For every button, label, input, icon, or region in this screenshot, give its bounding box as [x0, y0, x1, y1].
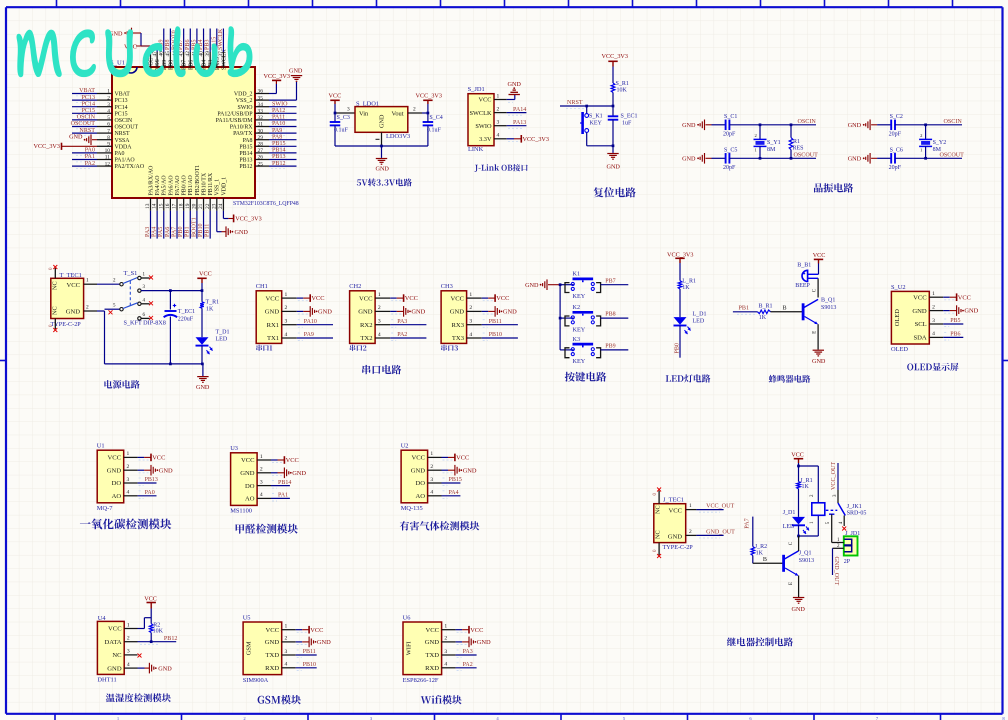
svg-text:PB6: PB6 — [185, 39, 191, 50]
capacitor S_C3 0.1uF — [334, 113, 336, 122]
svg-text:LED: LED — [783, 524, 795, 530]
title Wifi module — [421, 695, 462, 704]
svg-text:SDA: SDA — [913, 335, 926, 342]
module U1 body — [97, 450, 124, 503]
svg-text:PA0: PA0 — [115, 151, 125, 157]
svg-text:T_EC1: T_EC1 — [178, 309, 195, 315]
svg-text:PA8: PA8 — [243, 138, 253, 144]
svg-text:VCC: VCC — [266, 627, 280, 634]
svg-text:3: 3 — [378, 319, 381, 325]
svg-text:PB8: PB8 — [168, 60, 174, 70]
svg-text:2: 2 — [260, 467, 263, 473]
svg-text:PB8: PB8 — [165, 39, 171, 50]
svg-text:VSSA: VSSA — [115, 138, 131, 144]
svg-text:PB1: PB1 — [739, 305, 750, 311]
svg-text:1: 1 — [127, 622, 130, 628]
svg-text:RX1: RX1 — [267, 322, 279, 329]
svg-text:GND: GND — [607, 164, 621, 171]
svg-text:J_TEC1: J_TEC1 — [663, 496, 684, 503]
svg-text:2: 2 — [932, 304, 935, 310]
svg-text:4: 4 — [285, 332, 288, 338]
svg-text:13: 13 — [145, 203, 151, 209]
svg-text:LDO3V3: LDO3V3 — [386, 133, 410, 140]
svg-text:PA11: PA11 — [272, 115, 285, 121]
ground at JD1 pin 1 — [507, 99, 515, 101]
svg-text:PA0: PA0 — [85, 148, 95, 154]
svg-text:GND: GND — [292, 470, 306, 477]
title temperature humidity detect module — [106, 693, 171, 702]
module S_U2 body — [891, 291, 929, 344]
svg-text:PB11: PB11 — [303, 649, 316, 655]
svg-text:PA3: PA3 — [145, 227, 151, 237]
svg-text:2: 2 — [689, 529, 692, 535]
svg-text:3: 3 — [285, 649, 288, 655]
svg-text:GND: GND — [682, 155, 696, 162]
svg-text:R2: R2 — [153, 622, 160, 628]
wire collector to buzzer — [817, 278, 819, 297]
svg-text:VCC: VCC — [456, 455, 469, 462]
svg-text:PB15: PB15 — [239, 144, 252, 150]
svg-text:PA2: PA2 — [463, 662, 473, 668]
svg-text:28: 28 — [258, 142, 264, 148]
resistor J_R1 1K — [797, 482, 801, 489]
svg-text:VCC: VCC — [108, 626, 122, 633]
svg-text:PC13: PC13 — [115, 98, 128, 104]
title buzzer circuit — [769, 375, 811, 383]
ground at DHT11 pin 4 — [138, 667, 145, 669]
svg-text:2: 2 — [86, 305, 89, 311]
svg-text:SWIO: SWIO — [272, 101, 288, 107]
svg-text:PB13: PB13 — [272, 154, 286, 160]
svg-text:VCC: VCC — [359, 295, 373, 302]
svg-text:VCC_3V3: VCC_3V3 — [667, 252, 693, 259]
svg-text:1: 1 — [378, 292, 381, 298]
no-connect at DHT11 pin 3 — [138, 654, 142, 658]
svg-text:4: 4 — [932, 331, 935, 337]
svg-text:MQ-7: MQ-7 — [97, 505, 113, 512]
svg-text:4: 4 — [285, 662, 288, 668]
title reset circuit — [593, 187, 635, 197]
svg-text:PA2/TX/AO: PA2/TX/AO — [115, 164, 145, 170]
MCU top pin net wires and labels — [163, 29, 165, 53]
svg-text:1: 1 — [107, 89, 110, 95]
svg-text:1K: 1K — [206, 306, 214, 312]
svg-text:2P: 2P — [844, 559, 851, 565]
svg-text:10K: 10K — [153, 629, 164, 635]
svg-text:J_R1: J_R1 — [800, 478, 812, 484]
svg-text:1: 1 — [285, 624, 288, 630]
svg-text:VCC_3V3: VCC_3V3 — [264, 73, 290, 80]
transistor J_Q1 S9013 — [782, 555, 785, 572]
title 5V to 3.3V circuit — [357, 178, 412, 186]
svg-text:31: 31 — [258, 122, 264, 128]
svg-text:3: 3 — [430, 477, 433, 483]
LED L_D1 — [679, 289, 681, 317]
svg-text:PB5: PB5 — [950, 318, 960, 324]
svg-text:NC: NC — [655, 505, 662, 514]
svg-text:GND: GND — [668, 533, 683, 540]
power VCC_3V3 at MCU pin 24 VDD_1 — [222, 211, 224, 219]
svg-text:3: 3 — [127, 477, 130, 483]
svg-text:25: 25 — [258, 161, 264, 167]
svg-text:GND: GND — [265, 639, 280, 646]
svg-text:NC: NC — [52, 281, 59, 290]
svg-text:L_R1: L_R1 — [682, 279, 696, 285]
svg-text:SWIO: SWIO — [475, 123, 492, 130]
svg-text:VCC_OUT: VCC_OUT — [706, 504, 734, 510]
svg-text:VCC_3V3: VCC_3V3 — [523, 136, 549, 143]
title carbon monoxide detect module — [80, 519, 171, 530]
svg-text:E: E — [789, 582, 794, 585]
svg-text:GND: GND — [317, 639, 331, 646]
svg-text:VCC: VCC — [286, 457, 299, 464]
svg-text:RXD: RXD — [265, 665, 279, 672]
svg-text:TXD: TXD — [425, 652, 439, 659]
svg-text:3: 3 — [469, 319, 472, 325]
svg-text:SIM900A: SIM900A — [243, 677, 269, 684]
svg-text:VCC: VCC — [791, 451, 804, 458]
svg-text:VCC: VCC — [470, 627, 483, 634]
svg-text:20pF: 20pF — [723, 165, 736, 171]
svg-text:34: 34 — [258, 102, 264, 108]
svg-text:1: 1 — [285, 292, 288, 298]
svg-text:PA3: PA3 — [463, 649, 473, 655]
svg-text:PC15: PC15 — [81, 108, 95, 114]
svg-text:VCC: VCC — [66, 282, 80, 289]
module CH2 body — [350, 291, 376, 344]
svg-text:S_KFT DIP-8X8: S_KFT DIP-8X8 — [124, 320, 166, 327]
svg-text:K2: K2 — [573, 304, 581, 311]
svg-text:PB8: PB8 — [605, 312, 615, 318]
title serial circuit — [362, 365, 401, 374]
svg-text:VCC_3V3: VCC_3V3 — [235, 216, 261, 223]
sheet border frame — [6, 6, 1003, 8]
svg-text:OSCOUT: OSCOUT — [71, 121, 96, 127]
svg-text:VCC_3V3: VCC_3V3 — [602, 53, 628, 60]
svg-text:NRST: NRST — [567, 100, 583, 106]
svg-text:KEY: KEY — [590, 121, 603, 127]
svg-text:20pF: 20pF — [723, 131, 736, 137]
svg-text:PB0: PB0 — [178, 226, 184, 237]
svg-text:SRD-05: SRD-05 — [847, 511, 867, 517]
svg-text:VCC: VCC — [108, 455, 122, 462]
wire B node to transistor base — [771, 311, 804, 313]
svg-text:GND: GND — [69, 134, 83, 141]
svg-text:J_R2: J_R2 — [755, 544, 767, 550]
svg-text:4: 4 — [127, 662, 130, 668]
svg-text:30: 30 — [258, 128, 264, 134]
svg-text:VCC: VCC — [450, 295, 464, 302]
svg-text:PB7: PB7 — [182, 60, 188, 70]
svg-text:4: 4 — [260, 492, 263, 498]
svg-text:PB11: PB11 — [489, 319, 502, 325]
svg-text:3: 3 — [497, 120, 500, 126]
svg-text:AO: AO — [112, 493, 122, 500]
svg-text:20: 20 — [192, 203, 198, 209]
svg-text:11: 11 — [105, 155, 110, 161]
svg-text:VDD_2: VDD_2 — [234, 92, 253, 98]
svg-text:4: 4 — [107, 109, 110, 115]
svg-text:VCC: VCC — [152, 455, 165, 462]
svg-text:PA4: PA4 — [152, 227, 158, 237]
module U6 body — [403, 622, 442, 675]
svg-text:PA5/AO: PA5/AO — [162, 175, 168, 196]
svg-text:MS1100: MS1100 — [230, 508, 252, 515]
svg-text:OSCIN: OSCIN — [798, 119, 817, 125]
ground of power circuit — [197, 376, 208, 378]
MCU U1 body STM32F103C8T6 — [112, 67, 255, 198]
svg-text:GND: GND — [508, 81, 522, 88]
svg-text:GND: GND — [240, 470, 255, 477]
svg-text:1: 1 — [260, 454, 263, 460]
MCU left pins 1-12 — [97, 93, 112, 95]
MCU top pins 48-37 — [150, 52, 152, 67]
svg-text:GND: GND — [463, 467, 477, 474]
wire J_JD1 pin 2 GND_OUT — [833, 547, 844, 549]
svg-text:S_U2: S_U2 — [891, 284, 906, 291]
svg-text:RXD: RXD — [425, 665, 439, 672]
wire LDO bottom rail — [335, 145, 428, 147]
svg-text:PA9: PA9 — [304, 332, 314, 338]
resistor S_R1 10K — [611, 83, 615, 93]
wire LED to rail and ground — [201, 346, 203, 364]
svg-text:2: 2 — [430, 464, 433, 470]
wire NRST node — [612, 93, 614, 107]
svg-text:VBAT: VBAT — [79, 88, 95, 94]
svg-text:20pF: 20pF — [889, 131, 902, 137]
svg-text:PB2/BOOT1: PB2/BOOT1 — [195, 165, 201, 196]
svg-text:S_K1: S_K1 — [589, 114, 603, 120]
svg-text:B: B — [763, 557, 767, 563]
svg-text:2: 2 — [285, 305, 288, 311]
svg-text:DHT11: DHT11 — [97, 677, 116, 684]
svg-text:SWCLK: SWCLK — [218, 28, 224, 50]
ground of LDO circuit — [381, 146, 383, 158]
svg-text:VCC: VCC — [425, 627, 439, 634]
svg-text:4: 4 — [497, 133, 500, 139]
svg-text:S_Y1: S_Y1 — [767, 140, 781, 146]
ground at MCU pin 35 VSS_2 — [269, 99, 297, 101]
svg-text:OSCIN: OSCIN — [115, 118, 133, 124]
svg-text:VCC: VCC — [958, 294, 971, 301]
svg-text:GND: GND — [107, 665, 122, 672]
wire key bus — [559, 285, 561, 350]
svg-text:U1: U1 — [97, 443, 105, 450]
svg-text:36: 36 — [258, 89, 264, 95]
svg-text:GND: GND — [503, 309, 517, 316]
svg-text:VCC_3V3: VCC_3V3 — [416, 93, 442, 100]
svg-text:VDD_1: VDD_1 — [221, 177, 227, 196]
svg-text:S_JD1: S_JD1 — [468, 86, 485, 93]
svg-text:9: 9 — [107, 142, 110, 148]
wire OSCOUT S_Y2 — [926, 157, 962, 159]
svg-text:VCC: VCC — [310, 627, 323, 634]
push button K1 KEY — [560, 284, 565, 286]
svg-text:VBAT: VBAT — [115, 92, 131, 98]
svg-text:OSCOUT: OSCOUT — [115, 125, 139, 131]
svg-text:PB0: PB0 — [674, 343, 680, 354]
svg-text:PB10/TX: PB10/TX — [201, 172, 207, 195]
svg-text:RES: RES — [793, 145, 804, 151]
svg-text:2: 2 — [444, 636, 447, 642]
wire DATA to PB12 — [138, 641, 177, 643]
svg-text:3: 3 — [107, 102, 110, 108]
svg-text:NC: NC — [112, 652, 122, 659]
svg-text:S_C4: S_C4 — [429, 115, 442, 121]
svg-text:4: 4 — [430, 490, 433, 496]
capacitor S_C6 20pF — [877, 157, 891, 159]
svg-text:PA12/USB/DP: PA12/USB/DP — [217, 111, 253, 117]
svg-text:L_D1: L_D1 — [693, 312, 707, 318]
ground of buzzer circuit — [813, 349, 824, 351]
title formaldehyde detect module — [236, 524, 298, 534]
svg-text:PA1/AO: PA1/AO — [115, 158, 136, 164]
svg-text:32: 32 — [258, 115, 264, 121]
capacitor S_EC1 1uF — [612, 106, 614, 116]
svg-text:3.3V: 3.3V — [479, 136, 492, 143]
no-connect marks on T_TEC1 — [54, 268, 56, 278]
svg-text:T_S1: T_S1 — [124, 270, 138, 277]
title OLED display — [907, 363, 958, 371]
svg-text:GND: GND — [848, 122, 862, 129]
svg-text:PA6/AO: PA6/AO — [168, 175, 174, 196]
svg-text:PC15: PC15 — [115, 111, 128, 117]
title power circuit — [104, 380, 139, 389]
svg-text:K3: K3 — [573, 336, 581, 343]
svg-text:PA13: PA13 — [513, 120, 526, 126]
svg-text:220uF: 220uF — [178, 316, 194, 322]
svg-text:GND: GND — [792, 606, 806, 613]
svg-text:VCC: VCC — [479, 97, 492, 104]
svg-text:J_Q1: J_Q1 — [799, 551, 812, 557]
svg-text:PA14: PA14 — [513, 107, 526, 113]
svg-text:T_D1: T_D1 — [216, 330, 230, 336]
svg-text:PB14: PB14 — [239, 151, 252, 157]
title J-Link OB interface — [475, 164, 528, 172]
capacitor S_C2 20pF — [877, 124, 891, 126]
title relay control circuit — [727, 637, 793, 646]
capacitor S_C1 20pF — [712, 124, 726, 126]
svg-text:VCC_OUT: VCC_OUT — [831, 462, 837, 490]
svg-text:BEEP: BEEP — [795, 283, 810, 289]
label 串口2 under CH2 — [350, 345, 367, 351]
svg-text:8M: 8M — [767, 147, 776, 153]
MCU right pins 36-25 — [255, 93, 269, 95]
svg-text:GND_OUT: GND_OUT — [833, 557, 839, 586]
svg-text:PA9: PA9 — [272, 128, 282, 134]
LED J_D1 — [798, 489, 800, 517]
svg-text:GND: GND — [525, 282, 539, 289]
svg-text:PA6: PA6 — [165, 227, 171, 237]
svg-text:GND: GND — [411, 467, 426, 474]
resistor T_R1 1K — [201, 291, 203, 302]
svg-text:DO: DO — [112, 480, 122, 487]
svg-text:17: 17 — [172, 203, 178, 209]
svg-text:TX2: TX2 — [360, 335, 372, 342]
svg-text:VCC: VCC — [668, 508, 682, 515]
svg-text:PA10: PA10 — [272, 121, 285, 127]
push button K2 KEY — [560, 317, 565, 319]
svg-text:0.1uF: 0.1uF — [334, 128, 349, 134]
svg-text:PA5: PA5 — [158, 227, 164, 237]
svg-text:PA7/AO: PA7/AO — [175, 175, 181, 196]
svg-text:GND: GND — [425, 639, 440, 646]
wire button to ground rail — [587, 145, 613, 147]
sheet zone ticks bottom — [54, 714, 56, 720]
svg-text:GND: GND — [159, 467, 173, 474]
buzzer B_B1 BEEP — [802, 270, 808, 281]
LED T_D1 — [196, 337, 209, 345]
svg-text:6: 6 — [107, 122, 110, 128]
svg-text:23: 23 — [211, 203, 217, 209]
svg-text:10: 10 — [105, 148, 111, 154]
power VCC_3V3 at JD1 pin 4 — [507, 138, 514, 140]
svg-text:GND: GND — [411, 309, 425, 316]
svg-text:PA7: PA7 — [171, 227, 177, 237]
svg-text:PB6: PB6 — [950, 332, 960, 338]
svg-text:VCC: VCC — [405, 295, 418, 302]
svg-text:2: 2 — [497, 106, 500, 112]
svg-text:VCC: VCC — [813, 252, 826, 259]
svg-text:7: 7 — [107, 128, 110, 134]
crystal S_Y2 8M — [925, 125, 927, 140]
svg-text:8M: 8M — [933, 147, 942, 153]
svg-text:U3: U3 — [230, 445, 238, 452]
svg-text:T_R1: T_R1 — [206, 300, 220, 306]
wire OSCIN S_Y1 — [760, 124, 816, 126]
svg-text:PA10/RX: PA10/RX — [230, 125, 253, 131]
label 串口3 under CH3 — [441, 345, 458, 351]
svg-text:PB10: PB10 — [489, 332, 502, 338]
svg-text:29: 29 — [258, 135, 264, 141]
svg-text:J_D1: J_D1 — [783, 510, 796, 516]
svg-text:GND: GND — [812, 358, 826, 365]
svg-text:1uF: 1uF — [622, 121, 632, 127]
svg-text:PA0: PA0 — [145, 490, 155, 496]
svg-text:CH2: CH2 — [349, 283, 361, 290]
svg-text:PA9/TX: PA9/TX — [233, 131, 253, 137]
svg-text:1K: 1K — [756, 551, 764, 557]
wire LDO Vout to VCC_3V3 — [408, 112, 422, 114]
svg-text:1: 1 — [86, 278, 89, 284]
svg-text:AO: AO — [415, 493, 425, 500]
svg-text:1: 1 — [444, 624, 447, 630]
svg-text:SWCLK: SWCLK — [469, 110, 491, 117]
svg-text:GSM: GSM — [246, 641, 253, 655]
svg-text:18: 18 — [178, 203, 184, 209]
transistor B_Q1 S9013 — [802, 303, 805, 320]
sheet zone ticks top — [56, 0, 58, 7]
svg-text:VCC: VCC — [496, 295, 509, 302]
svg-text:S_EC1: S_EC1 — [621, 114, 638, 120]
svg-text:PB11: PB11 — [205, 224, 211, 237]
svg-text:KEY: KEY — [573, 293, 586, 300]
svg-text:VCC_3V3: VCC_3V3 — [34, 143, 60, 150]
svg-text:VSS_1: VSS_1 — [215, 179, 221, 196]
svg-text:U5: U5 — [243, 614, 251, 621]
svg-text:WIFI: WIFI — [406, 641, 413, 655]
svg-text:Vout: Vout — [392, 110, 404, 117]
svg-text:PB6: PB6 — [188, 60, 194, 70]
svg-text:PC14: PC14 — [115, 105, 128, 111]
svg-text:PA1: PA1 — [278, 493, 288, 499]
MCU bottom pin net wires and labels — [150, 211, 152, 239]
svg-text:2: 2 — [413, 107, 416, 113]
wire JD1 pin 2 PA14 — [507, 112, 527, 114]
svg-text:U2: U2 — [401, 443, 409, 450]
svg-text:1: 1 — [689, 503, 692, 509]
svg-text:1: 1 — [932, 291, 935, 297]
